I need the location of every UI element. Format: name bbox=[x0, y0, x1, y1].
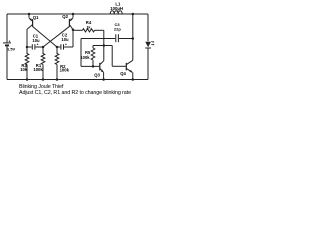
svg-text:Blinking Joule Thief: Blinking Joule Thief bbox=[19, 84, 64, 90]
svg-text:1k: 1k bbox=[86, 24, 91, 29]
svg-text:1.5V: 1.5V bbox=[7, 46, 16, 51]
svg-text:Q4: Q4 bbox=[120, 71, 126, 76]
svg-text:100k: 100k bbox=[33, 67, 43, 72]
svg-text:Adjust C1, C2, R1 and R2 to ch: Adjust C1, C2, R1 and R2 to change blink… bbox=[19, 90, 131, 96]
svg-text:10k: 10k bbox=[20, 67, 28, 72]
svg-text:10u: 10u bbox=[61, 37, 69, 42]
svg-text:100k: 100k bbox=[80, 55, 90, 60]
svg-text:Q1: Q1 bbox=[33, 15, 39, 20]
svg-text:22p: 22p bbox=[114, 26, 121, 31]
svg-text:Q2: Q2 bbox=[62, 14, 68, 19]
svg-text:Q3: Q3 bbox=[94, 73, 100, 78]
svg-text:10u: 10u bbox=[32, 38, 40, 43]
svg-text:100µH: 100µH bbox=[110, 6, 123, 11]
svg-text:100k: 100k bbox=[60, 68, 70, 73]
